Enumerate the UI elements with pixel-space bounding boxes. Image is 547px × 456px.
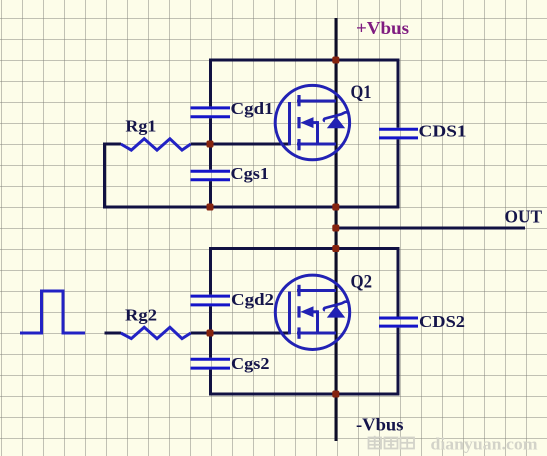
svg-text:Rg1: Rg1 xyxy=(125,117,156,136)
svg-text:OUT: OUT xyxy=(505,207,543,227)
transistor Q2 (N-MOSFET with body diode) xyxy=(275,275,349,349)
capacitor Cgd2 xyxy=(191,296,231,305)
svg-text:Q2: Q2 xyxy=(351,271,373,292)
label Q2 xyxy=(351,271,373,292)
label Rg2 xyxy=(125,306,157,325)
svg-text:Rg2: Rg2 xyxy=(125,306,157,325)
node: Q2 gate (Cgd2/Cgs2/Rg2) xyxy=(207,330,214,337)
label Rg1 xyxy=(125,117,156,136)
node: Q1 gate (Cgd1/Cgs1/Rg1) xyxy=(207,141,214,148)
node: Q2 drain rail / bus junction xyxy=(332,245,339,252)
label Cgs2 xyxy=(231,354,270,373)
wire: Q2 left vertical middle segment through gate node xyxy=(209,306,212,357)
wire: Rg2 right lead to Q2 gate plate xyxy=(191,332,290,335)
capacitor Cgs1 xyxy=(191,171,231,180)
wire: Q2 left vertical lower segment xyxy=(209,370,212,396)
capacitor CDS1 xyxy=(379,129,418,138)
transistor Q1 (N-MOSFET with body diode) xyxy=(275,85,349,159)
label Cgd2 xyxy=(231,290,274,309)
label Q1 xyxy=(351,82,372,103)
label OUT net xyxy=(505,207,543,227)
wire: Rg1 right lead to Q1 gate plate xyxy=(191,143,290,146)
wire: OUT stub (y=228) xyxy=(336,227,525,230)
wire: Q2 section top rail (y=248.5) xyxy=(209,247,400,250)
svg-text:Cgd2: Cgd2 xyxy=(231,290,274,309)
svg-text:Q1: Q1 xyxy=(351,82,372,103)
svg-text:-Vbus: -Vbus xyxy=(356,415,404,435)
node: Q1 source / bus junction xyxy=(332,204,339,211)
capacitor Cgs2 xyxy=(191,359,231,368)
svg-text:+Vbus: +Vbus xyxy=(356,18,409,38)
wire: +Vbus vertical bus down to -Vbus (x=336) xyxy=(335,18,338,441)
label Cgd1 xyxy=(231,99,274,118)
label Cgs1 xyxy=(231,164,270,183)
label CDS1 xyxy=(419,122,467,141)
wire: Q2 section left vertical upper segment xyxy=(209,247,212,295)
label +Vbus net xyxy=(356,18,409,38)
wire: Rg2 left lead xyxy=(105,332,122,335)
svg-text:dianyuan.com: dianyuan.com xyxy=(431,435,538,454)
svg-text:CDS2: CDS2 xyxy=(419,312,465,331)
svg-text:Cgs2: Cgs2 xyxy=(231,354,270,373)
wire: Q2 section bottom rail (y=394) xyxy=(209,393,400,396)
wire: Q2 section right vertical upper segment (x=398) xyxy=(397,247,400,317)
pulse source symbol xyxy=(20,291,85,333)
svg-text:CDS1: CDS1 xyxy=(419,122,467,141)
wire: Q2 section right vertical lower segment xyxy=(397,328,400,396)
wire: Q1 section right vertical upper segment (x=398) xyxy=(397,59,400,128)
svg-text:Cgs1: Cgs1 xyxy=(231,164,270,183)
wire: Q1 section bottom rail (y=207) xyxy=(103,206,400,209)
wire: Q1 section right vertical lower segment xyxy=(397,139,400,208)
resistor Rg1 xyxy=(121,139,191,150)
watermark 电源网 dianyuan.com xyxy=(369,436,415,449)
wire: Q1 section top rail (y=60) xyxy=(209,59,400,62)
wire: Rg1 left lead from loop corner xyxy=(103,143,121,146)
label -Vbus net xyxy=(356,415,404,435)
node: OUT / bus junction xyxy=(332,225,339,232)
wire: Q1 left vertical lower segment xyxy=(209,181,212,207)
resistor Rg2 xyxy=(121,327,191,338)
capacitor CDS2 xyxy=(379,318,418,326)
label CDS2 xyxy=(419,312,465,331)
wire: Q1 section left vertical upper segment (x=210.5) xyxy=(209,59,212,107)
node: Q2 source / bus junction xyxy=(332,391,339,398)
wire: Q1 left vertical middle segment through gate node xyxy=(209,118,212,169)
wire: gate-return loop left vertical (x=104.5) xyxy=(103,143,106,209)
svg-text:Cgd1: Cgd1 xyxy=(231,99,274,118)
node: Q1 source rail left junction xyxy=(207,204,214,211)
capacitor Cgd1 xyxy=(191,108,231,117)
node: +Vbus / Q1 drain rail junction xyxy=(332,57,339,64)
